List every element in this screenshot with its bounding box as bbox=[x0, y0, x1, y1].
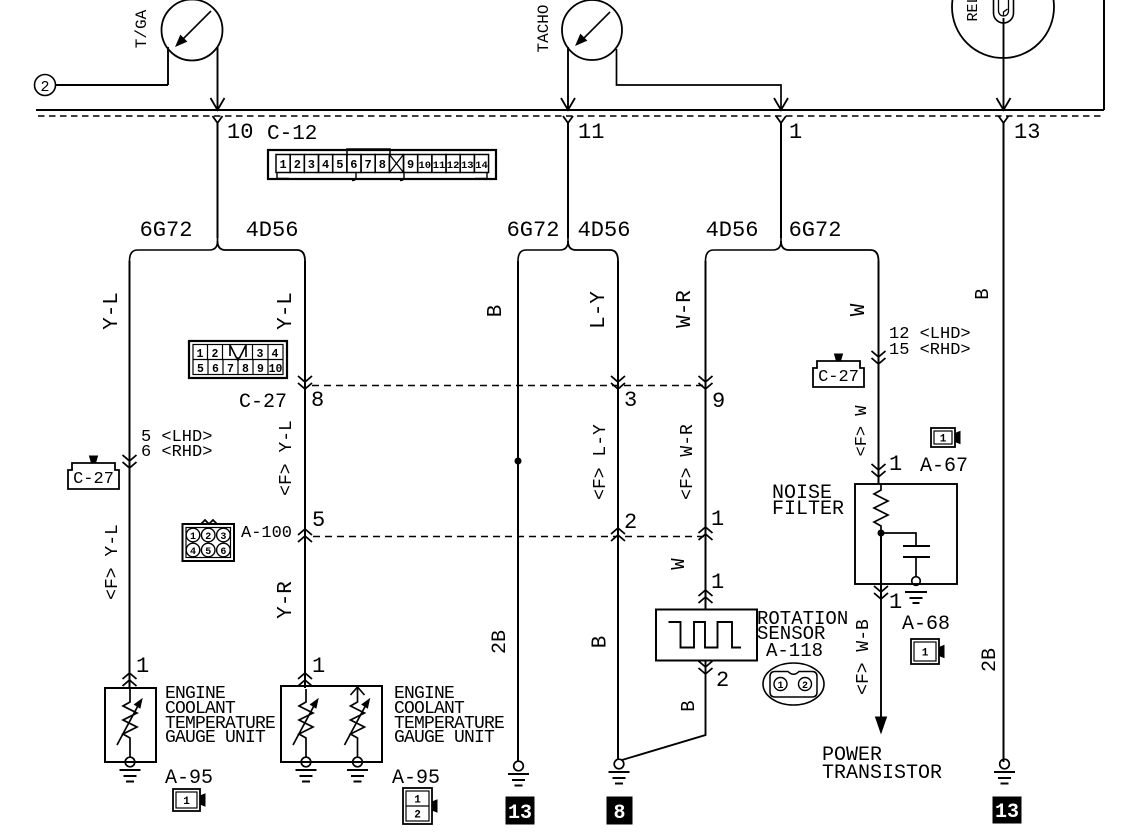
svg-text:W-R: W-R bbox=[674, 290, 697, 328]
svg-text:6G72: 6G72 bbox=[140, 218, 193, 243]
svg-text:A-100: A-100 bbox=[241, 524, 292, 543]
pin 8 bbox=[311, 388, 324, 413]
label C-27 bbox=[239, 391, 287, 414]
svg-text:T/GA: T/GA bbox=[133, 9, 151, 48]
label 6 RHD bbox=[141, 443, 212, 462]
svg-text:4D56: 4D56 bbox=[578, 218, 631, 243]
node 2 bbox=[35, 75, 56, 97]
svg-text:9: 9 bbox=[257, 363, 264, 376]
svg-text:2: 2 bbox=[40, 79, 49, 96]
svg-text:B: B bbox=[485, 305, 508, 318]
wire T/GA left lead bbox=[167, 47, 169, 85]
label (F) Y-L bbox=[277, 420, 297, 496]
label COOLANT bbox=[165, 699, 236, 719]
svg-text:W: W bbox=[848, 303, 871, 316]
label A-100 bbox=[241, 524, 292, 543]
wire W 6G72 bbox=[878, 261, 880, 484]
engine coolant temperature gauge unit (box) bbox=[105, 688, 156, 762]
label A-68 bbox=[902, 613, 950, 636]
svg-text:10: 10 bbox=[269, 363, 283, 376]
svg-text:6G72: 6G72 bbox=[789, 218, 842, 243]
svg-text:1: 1 bbox=[711, 507, 724, 532]
svg-text:B: B bbox=[590, 636, 613, 649]
pin 1 bbox=[312, 654, 325, 679]
ground bbox=[120, 757, 141, 781]
svg-text:C-12: C-12 bbox=[267, 123, 317, 146]
connector marker C-27 pin 9 bbox=[699, 376, 713, 389]
label ENGINE bbox=[165, 684, 225, 704]
connector marker A-95 pin 1 bbox=[298, 673, 312, 686]
bus arrow pin 10 bbox=[211, 98, 225, 123]
label W-R bbox=[674, 290, 697, 328]
label 4D56 bbox=[706, 218, 759, 243]
ground bbox=[508, 761, 529, 785]
svg-text:<F> Y-L: <F> Y-L bbox=[277, 420, 297, 496]
label ENGINE bbox=[394, 684, 454, 704]
label Y-L bbox=[101, 292, 124, 330]
wire split 4D56/6G72 bbox=[706, 238, 879, 261]
svg-text:6 <RHD>: 6 <RHD> bbox=[141, 443, 212, 462]
label FILTER bbox=[772, 498, 844, 521]
svg-text:<F> L-Y: <F> L-Y bbox=[591, 424, 611, 500]
connector marker A-100 pin 2 bbox=[611, 528, 625, 541]
svg-text:C-27: C-27 bbox=[73, 470, 114, 489]
thermistor (gauge unit) bbox=[117, 689, 142, 757]
svg-text:5: 5 bbox=[205, 547, 211, 558]
svg-text:B: B bbox=[972, 288, 994, 299]
connector A-100 bbox=[183, 520, 235, 561]
label W bbox=[668, 558, 690, 570]
svg-text:A-67: A-67 bbox=[920, 455, 968, 478]
label 2B bbox=[489, 630, 512, 654]
pin 1 bbox=[711, 507, 724, 532]
label B bbox=[485, 305, 508, 318]
label TRANSISTOR bbox=[822, 762, 942, 785]
svg-text:4: 4 bbox=[272, 348, 279, 361]
wire right border drop bbox=[1103, 0, 1105, 110]
svg-text:11: 11 bbox=[578, 120, 604, 145]
gauge TACHO bbox=[562, 0, 622, 60]
svg-text:1: 1 bbox=[197, 348, 204, 361]
label 4D56 bbox=[578, 218, 631, 243]
pin 1 bbox=[889, 590, 902, 615]
label (F) W bbox=[853, 405, 872, 457]
label (F) L-Y bbox=[591, 424, 611, 500]
svg-text:FILTER: FILTER bbox=[772, 498, 844, 521]
svg-text:10: 10 bbox=[227, 120, 253, 145]
svg-text:1: 1 bbox=[190, 532, 196, 543]
gauge REL (bulb) bbox=[952, 0, 1054, 58]
ground ref 13 bbox=[506, 797, 534, 825]
label Y-L bbox=[275, 292, 298, 330]
pin 13 bbox=[1014, 120, 1040, 145]
svg-text:3: 3 bbox=[308, 158, 315, 172]
label COOLANT bbox=[394, 699, 465, 719]
svg-text:2: 2 bbox=[414, 810, 421, 822]
pin 1 bbox=[789, 120, 802, 145]
connector A-95 icon bbox=[173, 789, 205, 811]
label (F) Y-L bbox=[103, 524, 123, 600]
label POWER bbox=[822, 744, 882, 767]
svg-text:1: 1 bbox=[312, 654, 325, 679]
wire L-Y 4D56 bbox=[617, 261, 619, 760]
ground ref 8 bbox=[607, 797, 632, 825]
connector marker A-67 pin 1 bbox=[872, 464, 886, 477]
wire to power transistor (arrow) bbox=[876, 599, 887, 733]
svg-text:6: 6 bbox=[212, 363, 219, 376]
svg-text:1: 1 bbox=[889, 590, 902, 615]
svg-text:11: 11 bbox=[433, 160, 446, 172]
connector A-118 face bbox=[763, 663, 824, 705]
label GAUGE UNIT bbox=[394, 728, 495, 748]
label A-95 bbox=[392, 767, 440, 790]
bus arrow pin 13 bbox=[997, 98, 1011, 123]
svg-text:2B: 2B bbox=[489, 630, 512, 654]
wire rotation sensor to ground bbox=[622, 661, 706, 761]
bus arrow pin 11 bbox=[561, 98, 575, 123]
thermistor (gauge unit 2a) bbox=[293, 689, 318, 757]
svg-text:Y-R: Y-R bbox=[275, 581, 298, 619]
pin 3 bbox=[624, 388, 637, 413]
connector marker C-27 pin 12/15 bbox=[872, 351, 886, 364]
label 5 LHD bbox=[141, 428, 212, 447]
svg-text:3: 3 bbox=[624, 388, 637, 413]
wire dashed link A-100 bbox=[313, 536, 705, 538]
svg-text:9: 9 bbox=[712, 389, 725, 414]
wire Y-L 4D56 bbox=[304, 261, 306, 688]
connector marker A-118 pin 1 bbox=[699, 590, 713, 603]
thermistor (gauge unit 2b) bbox=[345, 687, 370, 757]
wire stem pin 10 bbox=[217, 123, 219, 238]
svg-text:W: W bbox=[668, 558, 690, 570]
svg-text:<F> W: <F> W bbox=[853, 405, 872, 457]
svg-text:5: 5 bbox=[336, 158, 343, 172]
pin 10 bbox=[227, 120, 253, 145]
svg-text:8: 8 bbox=[613, 802, 625, 825]
ground bbox=[609, 759, 630, 783]
svg-text:1: 1 bbox=[711, 570, 724, 595]
label TEMPERATURE bbox=[394, 714, 504, 734]
connector marker A-118 pin 2 bbox=[699, 661, 713, 674]
svg-text:7: 7 bbox=[227, 363, 234, 376]
svg-text:5: 5 bbox=[312, 508, 325, 533]
wire REL to bus pin 13 bbox=[1003, 18, 1005, 110]
svg-text:5: 5 bbox=[197, 363, 204, 376]
svg-text:B: B bbox=[678, 700, 700, 711]
svg-text:2: 2 bbox=[802, 681, 808, 692]
svg-text:6: 6 bbox=[350, 158, 357, 172]
connector A-68 icon bbox=[911, 639, 944, 664]
svg-text:13: 13 bbox=[461, 160, 474, 172]
svg-text:13: 13 bbox=[1014, 120, 1040, 145]
svg-text:A-118: A-118 bbox=[766, 640, 823, 662]
svg-text:1: 1 bbox=[183, 796, 190, 808]
pin 1 bbox=[889, 452, 902, 477]
svg-text:1: 1 bbox=[922, 648, 929, 660]
svg-text:1: 1 bbox=[789, 120, 802, 145]
svg-text:<F> W-R: <F> W-R bbox=[678, 424, 698, 500]
wire TACHO right lead to bus pin 1 bbox=[617, 49, 782, 110]
svg-text:8: 8 bbox=[242, 363, 249, 376]
label T/GA bbox=[133, 9, 151, 48]
svg-text:13: 13 bbox=[508, 802, 532, 825]
svg-text:8: 8 bbox=[311, 388, 324, 413]
label TEMPERATURE bbox=[165, 714, 275, 734]
svg-text:A-68: A-68 bbox=[902, 613, 950, 636]
svg-text:4D56: 4D56 bbox=[706, 218, 759, 243]
svg-text:A-95: A-95 bbox=[392, 767, 440, 790]
connector marker C-27 pin 3 bbox=[611, 376, 625, 389]
svg-text:C-27: C-27 bbox=[818, 368, 859, 387]
connector marker A-100 pin 5 bbox=[298, 529, 312, 542]
svg-text:7: 7 bbox=[364, 158, 371, 172]
label A-118 bbox=[766, 640, 823, 662]
label Y-R bbox=[275, 581, 298, 619]
connector C-12 bbox=[268, 149, 496, 181]
svg-text:4D56: 4D56 bbox=[246, 218, 299, 243]
svg-text:13: 13 bbox=[995, 801, 1019, 824]
svg-text:GAUGE UNIT: GAUGE UNIT bbox=[394, 728, 495, 748]
label NOISE bbox=[772, 482, 832, 505]
svg-text:A-95: A-95 bbox=[165, 767, 213, 790]
wire dashed link C-27 bbox=[312, 385, 705, 387]
wire split 6G72/4D56 (TACHO) bbox=[518, 238, 618, 261]
connector marker C-27 pin 8 bbox=[298, 376, 312, 389]
label B bbox=[678, 700, 700, 711]
wire split 6G72/4D56 (T/GA) bbox=[130, 238, 306, 261]
rotation sensor A-118 bbox=[656, 610, 757, 661]
label W bbox=[848, 303, 871, 316]
label A-95 bbox=[165, 767, 213, 790]
junction dot bbox=[878, 530, 884, 536]
bus line solid bbox=[36, 109, 1104, 111]
wire W-R 4D56 bbox=[705, 261, 707, 610]
svg-text:2: 2 bbox=[212, 348, 219, 361]
svg-text:1: 1 bbox=[414, 795, 421, 807]
label GAUGE UNIT bbox=[165, 728, 266, 748]
connector C-27 (10-pin) bbox=[189, 341, 287, 378]
ground bbox=[296, 757, 317, 781]
svg-text:1: 1 bbox=[940, 434, 947, 446]
noise filter box bbox=[855, 484, 957, 584]
label 6G72 bbox=[140, 218, 193, 243]
svg-text:C-27: C-27 bbox=[239, 391, 287, 414]
svg-text:2: 2 bbox=[205, 532, 211, 543]
svg-text:TACHO: TACHO bbox=[535, 4, 553, 52]
svg-text:2B: 2B bbox=[979, 648, 1002, 672]
svg-text:15 <RHD>: 15 <RHD> bbox=[889, 341, 971, 360]
connector marker A-95 pin 1 bbox=[123, 673, 137, 686]
wire noise filter out bbox=[880, 533, 882, 599]
label L-Y bbox=[588, 291, 611, 329]
connector marker C-27 pin 5/6 bbox=[123, 455, 137, 468]
svg-text:8: 8 bbox=[379, 158, 386, 172]
ground ref 13 bbox=[993, 797, 1021, 824]
svg-text:6: 6 bbox=[220, 547, 226, 558]
svg-text:2: 2 bbox=[716, 668, 729, 693]
label (F) W-R bbox=[678, 424, 698, 500]
label B bbox=[590, 636, 613, 649]
label 4D56 bbox=[246, 218, 299, 243]
svg-text:TRANSISTOR: TRANSISTOR bbox=[822, 762, 942, 785]
label B bbox=[972, 288, 994, 299]
svg-text:Y-L: Y-L bbox=[275, 292, 298, 330]
svg-text:1: 1 bbox=[777, 681, 783, 692]
label 6G72 bbox=[789, 218, 842, 243]
svg-text:1: 1 bbox=[279, 158, 286, 172]
label ROTATION bbox=[757, 608, 848, 630]
label A-67 bbox=[920, 455, 968, 478]
wire Y-L 6G72 bbox=[129, 261, 131, 688]
svg-text:14: 14 bbox=[475, 160, 488, 172]
wire node2 to T/GA bbox=[56, 84, 169, 86]
junction dot bbox=[515, 458, 521, 464]
bus line dashed bbox=[38, 115, 1104, 117]
svg-text:10: 10 bbox=[418, 160, 431, 172]
svg-text:REL: REL bbox=[965, 0, 982, 22]
pin 11 bbox=[578, 120, 604, 145]
label 15 RHD bbox=[889, 341, 971, 360]
connector A-67 icon bbox=[931, 428, 960, 447]
pin 1 bbox=[136, 654, 149, 679]
label 2B bbox=[979, 648, 1002, 672]
svg-text:4: 4 bbox=[322, 158, 329, 172]
wire TACHO to bus pin 11 bbox=[567, 47, 569, 110]
connector A-95 icon 2 bbox=[403, 788, 437, 824]
label (F) W-B bbox=[854, 619, 874, 695]
connector C-27 icon bbox=[68, 456, 119, 489]
svg-text:2: 2 bbox=[624, 510, 637, 535]
svg-text:<F> Y-L: <F> Y-L bbox=[103, 524, 123, 600]
wire B to ground 13 bbox=[1003, 123, 1005, 762]
connector C-27 icon bbox=[813, 354, 864, 387]
label REL bbox=[965, 0, 982, 22]
wire T/GA to bus pin 10 bbox=[217, 47, 219, 110]
svg-text:3: 3 bbox=[257, 348, 264, 361]
svg-text:4: 4 bbox=[190, 547, 196, 558]
gauge T/GA bbox=[162, 0, 223, 61]
wire stem pin 1 bbox=[780, 123, 782, 238]
ground bbox=[347, 757, 368, 781]
engine coolant temperature gauge unit 2 (box) bbox=[281, 686, 382, 762]
ground bbox=[994, 759, 1015, 783]
pin 1 bbox=[711, 570, 724, 595]
label SENSOR bbox=[757, 623, 825, 645]
bus arrow pin 1 bbox=[774, 98, 788, 123]
svg-text:3: 3 bbox=[220, 532, 226, 543]
svg-text:<F> W-B: <F> W-B bbox=[854, 619, 874, 695]
svg-text:GAUGE UNIT: GAUGE UNIT bbox=[165, 728, 266, 748]
svg-text:12: 12 bbox=[447, 160, 460, 172]
connector marker A-100 pin 1 bbox=[699, 527, 713, 540]
pin 2 bbox=[716, 668, 729, 693]
svg-text:Y-L: Y-L bbox=[101, 292, 124, 330]
ground (capacitor) bbox=[905, 577, 927, 603]
pin 5 bbox=[312, 508, 325, 533]
label connector C-12 bbox=[267, 123, 317, 146]
connector marker A-68 pin 1 bbox=[874, 586, 888, 599]
label TACHO bbox=[535, 4, 553, 52]
svg-text:6G72: 6G72 bbox=[507, 218, 560, 243]
svg-text:L-Y: L-Y bbox=[588, 291, 611, 329]
capacitor (noise filter) bbox=[881, 533, 930, 577]
pin 2 bbox=[624, 510, 637, 535]
resistor (noise filter) bbox=[874, 484, 888, 530]
svg-text:1: 1 bbox=[136, 654, 149, 679]
svg-text:1: 1 bbox=[889, 452, 902, 477]
pin 9 bbox=[712, 389, 725, 414]
svg-text:9: 9 bbox=[407, 158, 414, 172]
svg-text:2: 2 bbox=[294, 158, 301, 172]
label 6G72 bbox=[507, 218, 560, 243]
label 12 LHD bbox=[889, 325, 971, 344]
wire stem pin 11 bbox=[567, 123, 569, 238]
wire B 6G72 bbox=[517, 261, 519, 762]
